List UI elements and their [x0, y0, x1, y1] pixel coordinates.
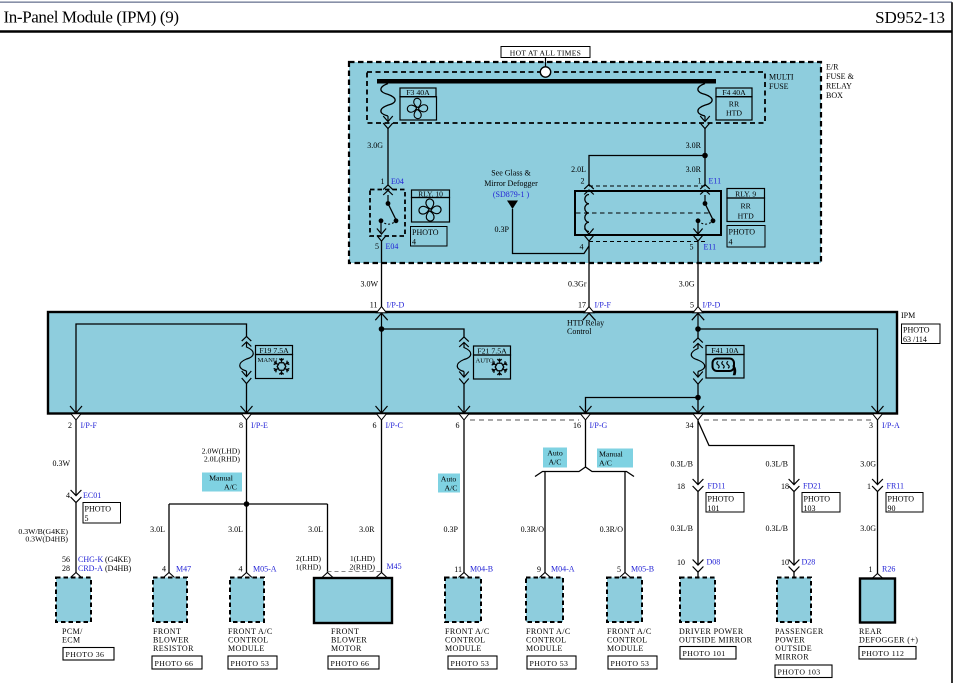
wire 3.0L to M47: [168, 504, 170, 573]
svg-text:63 /114: 63 /114: [903, 335, 927, 344]
relay RLY9 photo box: [727, 226, 765, 248]
component front blower resistor box: [153, 578, 187, 623]
svg-text:F21 7.5A: F21 7.5A: [477, 347, 507, 356]
wire 3.0G relay RLY9 pin5 to IPM pin5: [697, 242, 699, 307]
svg-text:E/R: E/R: [826, 63, 839, 72]
svg-text:3.0W: 3.0W: [360, 280, 378, 289]
svg-text:FUSE &: FUSE &: [826, 72, 855, 81]
fuse F19 MANU icon box: [256, 355, 293, 379]
svg-text:I/P-A: I/P-A: [882, 421, 900, 430]
connector FD11: [693, 479, 704, 492]
svg-text:3.0G: 3.0G: [860, 460, 876, 469]
wire 0.3P IPM pin6 auto to M04-B: [463, 420, 465, 573]
svg-text:PHOTO 53: PHOTO 53: [530, 659, 569, 668]
fuse F41 label box: [706, 346, 744, 355]
fuse F41 10A: [697, 329, 699, 338]
relay RLY9 pin1 connector chevrons: [700, 185, 710, 195]
svg-text:PHOTO: PHOTO: [85, 505, 112, 514]
svg-text:CHG-K: CHG-K: [78, 555, 104, 564]
svg-text:0.3R/O: 0.3R/O: [600, 525, 624, 534]
relay RLY9 pin4 connector chevrons: [584, 229, 593, 242]
svg-text:PHOTO 101: PHOTO 101: [683, 649, 726, 658]
svg-text:HTD: HTD: [738, 211, 754, 220]
fuse F21 7.5A: [459, 337, 469, 347]
wire junction to relay RLY9 pin2: [589, 156, 705, 187]
svg-text:AUTO: AUTO: [476, 358, 494, 365]
svg-text:0.3R/O: 0.3R/O: [521, 525, 545, 534]
svg-text:9: 9: [537, 565, 541, 574]
component PCM/ECM box: [56, 578, 91, 623]
svg-text:0.3L/B: 0.3L/B: [766, 524, 788, 533]
svg-text:PHOTO 53: PHOTO 53: [611, 659, 650, 668]
connector FD21 photo box: [802, 493, 840, 513]
rear defogger photo box: [859, 647, 916, 660]
svg-text:PHOTO 36: PHOTO 36: [66, 650, 105, 659]
svg-text:18: 18: [677, 482, 685, 491]
svg-text:M45: M45: [387, 562, 402, 571]
svg-text:0.3P: 0.3P: [495, 225, 510, 234]
svg-text:3.0R: 3.0R: [686, 165, 702, 174]
svg-text:4: 4: [239, 565, 243, 574]
svg-text:FUSE: FUSE: [769, 82, 789, 91]
fuse F3 fan icon box: [400, 97, 437, 120]
fuse F21 label box: [474, 346, 511, 355]
svg-text:10: 10: [781, 558, 789, 567]
svg-text:E11: E11: [704, 243, 717, 252]
svg-text:RESISTOR: RESISTOR: [153, 644, 194, 653]
svg-text:1: 1: [698, 177, 702, 186]
relay RLY9 switch: [704, 195, 706, 202]
svg-text:56: 56: [62, 555, 70, 564]
svg-text:3.0G: 3.0G: [860, 524, 876, 533]
svg-text:Auto: Auto: [547, 449, 563, 458]
svg-text:A/C: A/C: [599, 459, 612, 468]
wire branch to FD21: [698, 421, 794, 485]
svg-text:4: 4: [412, 237, 416, 246]
component front A/C control module 3 box: [526, 578, 563, 623]
fuse F21 AUTO icon box: [474, 355, 511, 379]
svg-text:MOTOR: MOTOR: [331, 644, 362, 653]
driver mirror photo box: [680, 647, 736, 660]
relay RLY10 pin1 connector chevrons: [383, 185, 393, 195]
svg-text:IPM: IPM: [901, 311, 915, 320]
svg-text:2(RHD): 2(RHD): [349, 563, 375, 572]
wire 0.3R/O to M04-A: [544, 472, 546, 573]
svg-text:16: 16: [573, 421, 581, 430]
IPM pin16 exit connector: [580, 406, 592, 413]
svg-text:In-Panel Module (IPM) (9): In-Panel Module (IPM) (9): [4, 8, 180, 27]
svg-text:See Glass &: See Glass &: [491, 169, 531, 178]
svg-text:8: 8: [239, 421, 243, 430]
svg-text:PHOTO 112: PHOTO 112: [862, 649, 905, 658]
front blower resistor photo box: [152, 656, 202, 669]
IPM pin6 auto exit connector: [458, 406, 470, 413]
connector D08: [693, 560, 704, 573]
svg-text:3.0R: 3.0R: [686, 141, 702, 150]
wire F3 to relay RLY10: [387, 129, 389, 186]
svg-text:1: 1: [867, 482, 871, 491]
svg-text:0.3Gr: 0.3Gr: [568, 280, 587, 289]
svg-text:I/P-D: I/P-D: [387, 301, 405, 310]
svg-text:PHOTO 103: PHOTO 103: [778, 668, 821, 677]
svg-text:(SD879-1 ): (SD879-1 ): [493, 190, 530, 199]
svg-text:11: 11: [370, 301, 378, 310]
wire 3.0L to M05-A: [246, 504, 248, 573]
front A/C module 4 photo box: [608, 656, 657, 669]
fuse F3 40A: [381, 84, 395, 117]
svg-text:3.0R: 3.0R: [359, 525, 375, 534]
wire fork to manual branch: [586, 467, 635, 477]
svg-text:M47: M47: [176, 565, 191, 574]
svg-text:PHOTO 66: PHOTO 66: [155, 659, 194, 668]
E/R fuse and relay box: [349, 62, 821, 263]
relay RLY9 lower connector dashed line: [589, 241, 705, 243]
front blower motor photo box: [328, 656, 379, 669]
wire IPM pin11 to fuse F21: [382, 329, 465, 337]
node IPM pin5 junction: [695, 326, 701, 332]
component passenger power outside mirror box: [777, 578, 811, 623]
header top rule: [0, 1, 952, 3]
relay RLY10 box: [370, 190, 405, 237]
component front A/C control module 2 box: [445, 578, 481, 623]
svg-text:FD21: FD21: [803, 482, 821, 491]
svg-text:4: 4: [729, 237, 733, 246]
relay RLY9 middle dashed line: [576, 212, 711, 214]
svg-text:RELAY: RELAY: [826, 82, 852, 91]
label Auto A/C highlighted: [438, 474, 460, 493]
relay RLY9 pin2 connector chevrons: [584, 185, 594, 195]
svg-text:2: 2: [68, 421, 72, 430]
IPM pin2 exit connector: [70, 406, 82, 413]
label Manual A/C fork highlighted: [597, 449, 633, 468]
svg-text:5: 5: [690, 243, 694, 252]
wire IPM pin3 to FR11: [877, 420, 879, 485]
svg-text:D28: D28: [802, 558, 816, 567]
IPM bottom dashed connector line right: [704, 419, 871, 421]
svg-text:(D4HB): (D4HB): [105, 564, 132, 573]
svg-text:1(RHD): 1(RHD): [295, 563, 321, 572]
wire IPM pin34 to FD11: [697, 420, 699, 485]
svg-text:10: 10: [677, 558, 685, 567]
svg-text:E04: E04: [391, 177, 404, 186]
header bottom rule: [0, 30, 952, 33]
wire 2.0 IPM pin8 down: [246, 420, 248, 504]
blower motor pin1 entry: [376, 573, 387, 578]
svg-text:PHOTO: PHOTO: [903, 326, 930, 335]
node F41 junction: [695, 395, 701, 401]
wire 0.3W IPM pin2 to EC01: [75, 420, 77, 496]
IPM pin3 exit connector: [872, 406, 884, 413]
relay RLY9 coil: [585, 195, 589, 232]
svg-text:MIRROR: MIRROR: [775, 653, 809, 662]
svg-text:I/P-F: I/P-F: [595, 301, 612, 310]
svg-text:A/C: A/C: [224, 483, 237, 492]
IPM photo box: [902, 324, 941, 344]
svg-text:FR11: FR11: [887, 482, 905, 491]
wire IPM pin11 to pin6: [381, 329, 383, 412]
svg-text:MODULE: MODULE: [228, 644, 265, 653]
svg-text:0.3P: 0.3P: [444, 525, 459, 534]
svg-text:FD11: FD11: [708, 482, 726, 491]
connector FD21: [789, 479, 800, 492]
svg-text:SD952-13: SD952-13: [875, 8, 945, 27]
svg-text:I/P-E: I/P-E: [251, 421, 268, 430]
node IPM pin11 junction: [379, 326, 385, 332]
label Manual A/C highlighted: [202, 473, 242, 492]
svg-text:0.3L/B: 0.3L/B: [766, 460, 788, 469]
svg-text:EC01: EC01: [83, 491, 101, 500]
node manual distribution junction: [244, 501, 250, 507]
relay RLY10 switch: [387, 195, 389, 202]
svg-text:2.0L: 2.0L: [571, 165, 586, 174]
svg-text:Mirror Defogger: Mirror Defogger: [484, 179, 538, 188]
wire fork to auto branch: [535, 467, 586, 477]
IPM bottom dashed connector line left: [470, 419, 579, 421]
svg-text:Manual: Manual: [209, 474, 234, 483]
svg-text:M05-A: M05-A: [253, 565, 277, 574]
svg-text:D08: D08: [707, 558, 721, 567]
svg-text:(G4KE): (G4KE): [105, 555, 131, 564]
fuse F4 RR HTD box: [716, 97, 752, 120]
svg-text:Auto: Auto: [441, 475, 457, 484]
svg-text:5: 5: [617, 565, 621, 574]
front A/C module 1 photo box: [228, 656, 277, 669]
wire 3.0R IPM pin6 to blower motor pin1: [381, 420, 383, 573]
component rear defogger box: [860, 579, 895, 623]
connector D28: [789, 560, 800, 573]
wire stub from HOT AT ALL TIMES: [545, 58, 547, 68]
wire 0.3R/O to M05-B: [624, 472, 626, 573]
fuse F4 40A: [698, 84, 712, 117]
svg-text:4: 4: [162, 565, 166, 574]
wire IPM pin5 to pin3: [698, 329, 878, 412]
fuse F41 defogger icon box: [706, 355, 744, 379]
fuse F19 7.5A: [242, 337, 252, 347]
svg-text:18: 18: [781, 482, 789, 491]
svg-text:PHOTO: PHOTO: [412, 228, 439, 237]
IPM pin34 exit connector: [692, 406, 704, 413]
svg-text:5: 5: [375, 242, 379, 251]
wire EC01 to PCM: [75, 503, 77, 573]
svg-text:0.3L/B: 0.3L/B: [671, 460, 693, 469]
svg-text:3.0L: 3.0L: [228, 525, 243, 534]
svg-text:R26: R26: [882, 565, 895, 574]
wire F4 down to junction: [704, 129, 706, 156]
svg-text:PHOTO 53: PHOTO 53: [451, 659, 490, 668]
wire IPM pin16 stem: [585, 420, 587, 467]
svg-text:3: 3: [869, 421, 873, 430]
svg-text:HTD: HTD: [726, 109, 742, 118]
relay RLY10 fan icon box: [412, 198, 450, 223]
svg-text:OUTSIDE MIRROR: OUTSIDE MIRROR: [679, 636, 753, 645]
svg-text:4: 4: [66, 491, 70, 500]
svg-text:PHOTO: PHOTO: [804, 495, 831, 504]
svg-text:RR: RR: [740, 202, 751, 211]
svg-text:101: 101: [708, 504, 720, 513]
fuse F3 label box: [400, 88, 436, 97]
svg-text:M04-B: M04-B: [470, 565, 493, 574]
wire IPM internal manual bus: [76, 324, 247, 412]
svg-text:PHOTO 53: PHOTO 53: [231, 659, 270, 668]
IPM pin6 I/P-C exit connector: [376, 406, 388, 413]
wire manual distribution bus: [169, 503, 328, 505]
svg-text:I/P-F: I/P-F: [81, 421, 98, 430]
svg-text:ECM: ECM: [62, 636, 81, 645]
wire FD11 to D08: [697, 492, 699, 565]
connector FR11 photo box: [886, 493, 923, 513]
wire FD21 to D28: [793, 492, 795, 565]
svg-text:5: 5: [85, 514, 89, 523]
connector FR11: [872, 479, 883, 492]
svg-text:M04-A: M04-A: [551, 565, 575, 574]
svg-text:MODULE: MODULE: [607, 644, 644, 653]
svg-text:CRD-A: CRD-A: [78, 564, 103, 573]
svg-text:103: 103: [804, 504, 816, 513]
multi fuse box: [367, 72, 765, 123]
IPM pin17 entry connector: [584, 307, 594, 313]
svg-text:4: 4: [580, 243, 584, 252]
wire 3.0W relay RLY10 to IPM pin11: [381, 241, 383, 307]
svg-text:1: 1: [381, 177, 385, 186]
svg-text:M05-B: M05-B: [631, 565, 654, 574]
svg-text:34: 34: [686, 421, 694, 430]
svg-text:PHOTO: PHOTO: [888, 495, 915, 504]
svg-text:PHOTO: PHOTO: [708, 495, 735, 504]
svg-text:I/P-C: I/P-C: [386, 421, 403, 430]
relay RLY10 label box: [412, 190, 450, 198]
blower motor pin2 entry: [322, 573, 333, 578]
relay RLY9 pin5 connector chevrons: [693, 229, 702, 242]
wire 3.0L to blower motor pin2: [327, 504, 329, 573]
svg-text:HOT AT ALL TIMES: HOT AT ALL TIMES: [510, 48, 581, 57]
svg-text:3.0G: 3.0G: [679, 280, 695, 289]
IPM pin8 exit connector: [241, 406, 253, 413]
svg-text:1: 1: [869, 565, 873, 574]
fuse F4 label box: [716, 88, 752, 97]
svg-text:6: 6: [456, 421, 460, 430]
label HOT AT ALL TIMES: [501, 47, 590, 58]
svg-text:Manual: Manual: [599, 450, 624, 459]
PCM photo box: [63, 648, 114, 661]
svg-text:MULTI: MULTI: [769, 73, 794, 82]
relay RLY10 photo box: [411, 227, 448, 247]
label Auto A/C fork highlighted: [543, 448, 567, 468]
svg-text:2: 2: [581, 177, 585, 186]
off-page triangle: [507, 201, 518, 210]
svg-text:3.0L: 3.0L: [308, 525, 323, 534]
relay RLY9 box: [575, 191, 721, 235]
wire FR11 to R26: [877, 492, 879, 574]
svg-text:MODULE: MODULE: [526, 644, 563, 653]
wire 0.3Gr relay RLY9 pin4 to IPM pin17: [588, 242, 590, 307]
relay RLY9 upper connector dashed line: [589, 185, 705, 187]
connector FD11 photo box: [706, 493, 744, 513]
component front blower motor box: [314, 578, 392, 623]
relay RLY10 pin5 connector chevrons: [377, 229, 386, 242]
svg-text:RLY. 9: RLY. 9: [735, 189, 756, 198]
svg-text:17: 17: [578, 301, 586, 310]
front A/C module 2 photo box: [448, 656, 497, 669]
connector EC01: [71, 490, 82, 503]
svg-text:0.3L/B: 0.3L/B: [671, 524, 693, 533]
bus bar: [377, 79, 716, 84]
page right border: [951, 2, 953, 683]
svg-text:A/C: A/C: [549, 458, 562, 467]
svg-text:A/C: A/C: [445, 484, 458, 493]
svg-text:0.3W: 0.3W: [52, 459, 70, 468]
svg-text:6: 6: [373, 421, 377, 430]
svg-text:RR: RR: [729, 99, 740, 108]
svg-text:PHOTO: PHOTO: [729, 228, 756, 237]
front A/C module 3 photo box: [527, 656, 576, 669]
component driver power outside mirror box: [680, 578, 715, 623]
svg-text:3.0L: 3.0L: [150, 525, 165, 534]
svg-text:E11: E11: [709, 177, 722, 186]
IPM pin11 entry connector: [377, 307, 387, 313]
svg-text:I/P-D: I/P-D: [703, 301, 721, 310]
node junction 3.0R: [702, 153, 708, 159]
svg-text:BOX: BOX: [826, 91, 843, 100]
svg-text:E04: E04: [386, 242, 399, 251]
relay RLY9 RR HTD box: [727, 198, 765, 222]
IPM pin5 entry connector: [693, 307, 703, 313]
component front A/C control module 4 box: [607, 578, 642, 623]
wire 0.3P to relay RLY9 pin4: [513, 209, 590, 254]
passenger mirror photo box: [775, 665, 832, 678]
svg-text:28: 28: [62, 564, 70, 573]
svg-text:11: 11: [454, 565, 462, 574]
node bus-bar supply circle: [540, 67, 550, 77]
relay RLY9 label box: [727, 189, 765, 199]
svg-text:F19 7.5A: F19 7.5A: [259, 346, 289, 355]
svg-text:MODULE: MODULE: [445, 644, 482, 653]
svg-text:3.0G: 3.0G: [367, 141, 383, 150]
blower motor connector dashed line: [328, 571, 382, 573]
svg-text:DEFOGGER (+): DEFOGGER (+): [859, 636, 918, 645]
wire F41 to IPM pin16: [586, 398, 699, 413]
svg-text:0.3W(D4HB): 0.3W(D4HB): [25, 535, 68, 544]
connector EC01 photo box: [83, 503, 121, 524]
PCM entry connector: [71, 573, 82, 578]
wire junction to relay RLY9 pin1: [704, 156, 706, 187]
fuse F19 label box: [256, 346, 293, 355]
svg-text:5: 5: [690, 301, 694, 310]
svg-text:F41 10A: F41 10A: [711, 346, 739, 355]
svg-text:I/P-G: I/P-G: [590, 421, 608, 430]
svg-text:F3 40A: F3 40A: [406, 88, 430, 97]
svg-text:PHOTO 66: PHOTO 66: [331, 659, 370, 668]
svg-text:Control: Control: [567, 327, 592, 336]
svg-text:90: 90: [888, 504, 896, 513]
svg-text:F4 40A: F4 40A: [722, 88, 746, 97]
IPM module box: [48, 312, 897, 414]
component front A/C control module 1 box: [230, 578, 264, 623]
svg-text:2.0L(RHD): 2.0L(RHD): [204, 455, 241, 464]
